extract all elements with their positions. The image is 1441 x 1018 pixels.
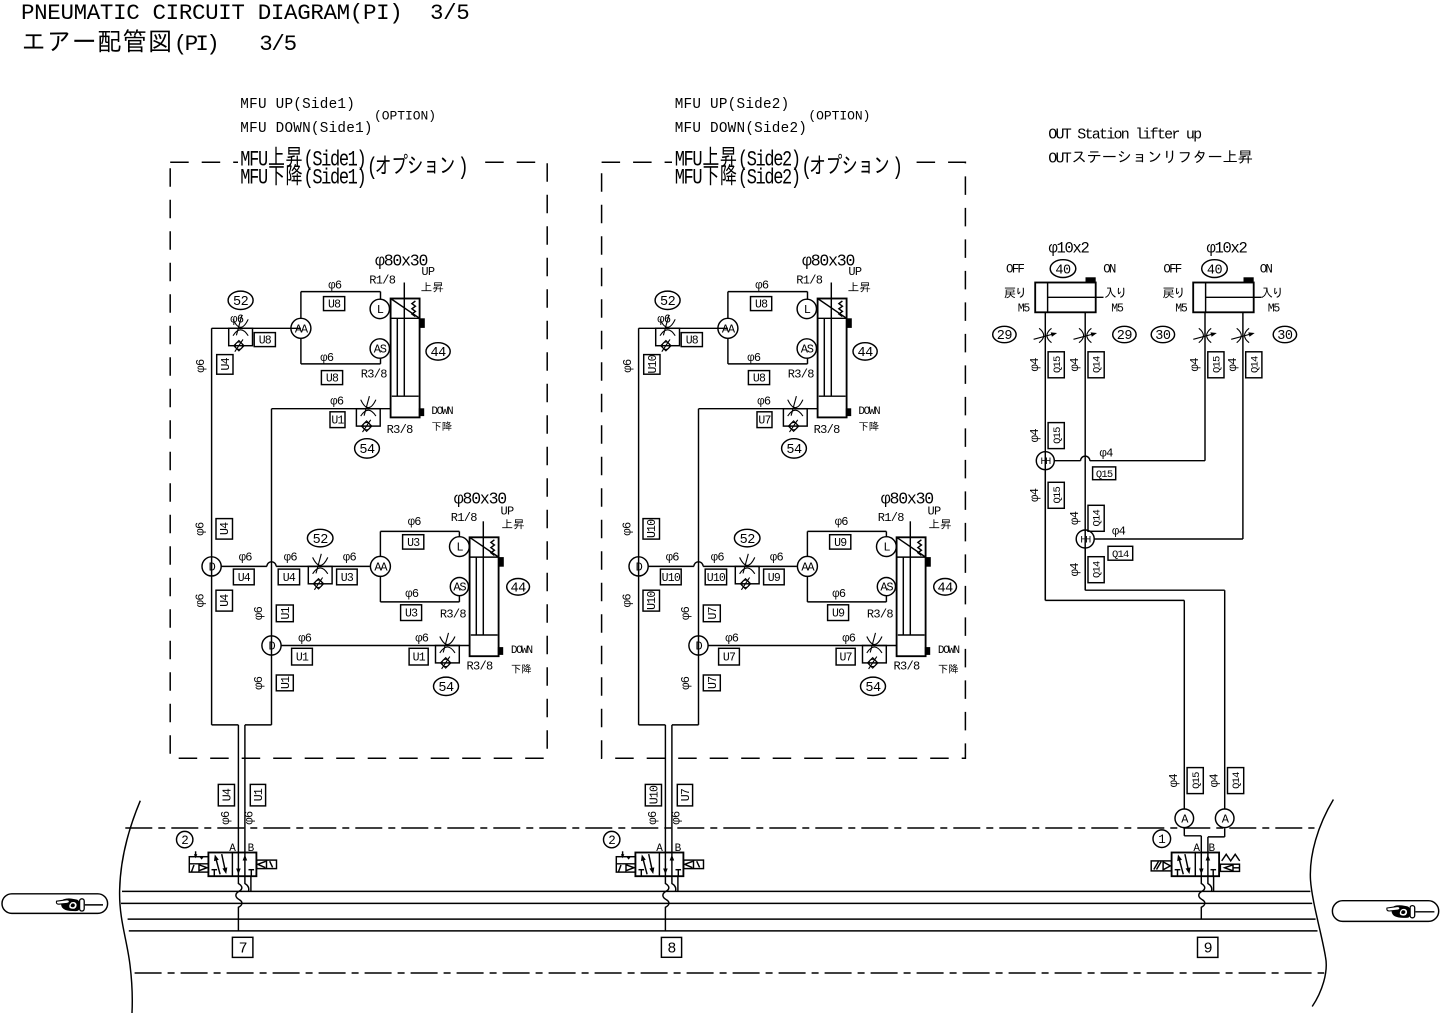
svg-text:AS: AS <box>880 581 893 595</box>
svg-text:DOWN: DOWN <box>938 645 960 657</box>
svg-text:φ4: φ4 <box>1028 429 1042 443</box>
svg-text:U4: U4 <box>283 572 296 585</box>
svg-text:U7: U7 <box>758 415 770 428</box>
label U10 <box>643 590 660 611</box>
flow control valve <box>436 646 460 663</box>
svg-text:M5: M5 <box>1018 303 1031 316</box>
text 下降 <box>269 166 283 185</box>
svg-text:φ6: φ6 <box>725 632 739 646</box>
lifter wires <box>1044 312 1046 600</box>
text エアー配管図 <box>24 34 43 48</box>
svg-text:(OPTION): (OPTION) <box>808 109 870 124</box>
label Q15 <box>1187 768 1203 794</box>
label U3 <box>337 569 358 585</box>
wire AA vertical <box>727 292 729 319</box>
rail centerline top <box>125 827 1314 829</box>
svg-text:U7: U7 <box>707 677 720 689</box>
svg-text:φ6: φ6 <box>328 279 342 293</box>
svg-text:MFU: MFU <box>240 166 267 191</box>
svg-text:φ4: φ4 <box>1028 358 1042 372</box>
svg-text:φ6: φ6 <box>666 551 680 565</box>
label U3 <box>403 535 424 549</box>
svg-text:U4: U4 <box>221 788 234 801</box>
text 戻り <box>1005 288 1016 299</box>
flow control valve <box>656 328 680 345</box>
node AA <box>797 556 817 576</box>
cylinder φ80x30 <box>818 299 847 418</box>
svg-text:R1/8: R1/8 <box>796 274 823 288</box>
balloon 54 <box>434 677 459 695</box>
svg-text:UP: UP <box>421 265 435 279</box>
svg-text:54: 54 <box>786 443 802 458</box>
svg-text:D: D <box>695 640 702 654</box>
svg-text:U1: U1 <box>280 676 293 689</box>
svg-text:U3: U3 <box>341 572 354 585</box>
svg-text:DOWN: DOWN <box>858 406 880 418</box>
svg-text:U7: U7 <box>839 652 851 665</box>
text 上昇 <box>421 282 431 291</box>
node D <box>202 557 221 576</box>
label Q14 <box>1108 546 1133 560</box>
svg-text:OFF: OFF <box>1163 262 1181 276</box>
text オプション <box>376 156 389 174</box>
wire bottom lower <box>380 601 459 603</box>
label U1 <box>250 784 265 806</box>
balloon 44 <box>934 579 957 596</box>
svg-text:U10: U10 <box>707 572 726 585</box>
label U8 <box>321 371 342 385</box>
svg-text:φ6: φ6 <box>832 587 846 601</box>
svg-text:U7: U7 <box>707 607 720 619</box>
throttle <box>1079 328 1084 342</box>
label U4 <box>218 784 234 806</box>
svg-text:φ6: φ6 <box>679 606 693 620</box>
wire valve A/B through <box>664 853 666 877</box>
wire A circle to port A <box>1183 828 1185 835</box>
wire down upper <box>699 408 818 410</box>
svg-text:φ6: φ6 <box>711 551 725 565</box>
label Q15 <box>1048 423 1064 449</box>
rail pipes <box>122 890 1310 892</box>
svg-text:54: 54 <box>438 681 454 696</box>
cylinder φ80x30 <box>897 537 926 656</box>
svg-text:φ6: φ6 <box>284 551 298 565</box>
label U10 <box>660 569 681 585</box>
hose squiggles <box>250 876 252 891</box>
svg-text:U4: U4 <box>219 522 232 535</box>
text オプション <box>811 156 824 174</box>
svg-text:Q15: Q15 <box>1052 356 1064 373</box>
svg-text:1: 1 <box>1158 833 1165 847</box>
svg-text:MFU DOWN(Side2): MFU DOWN(Side2) <box>675 121 807 137</box>
svg-text:52: 52 <box>313 533 329 548</box>
svg-text:U1: U1 <box>413 652 426 665</box>
wire down upper <box>272 408 391 410</box>
label Q14 <box>1088 352 1104 378</box>
svg-text:U8: U8 <box>328 299 341 312</box>
svg-text:U9: U9 <box>832 608 845 621</box>
svg-text:R3/8: R3/8 <box>788 367 815 381</box>
svg-text:30: 30 <box>1277 329 1293 344</box>
svg-text:U1: U1 <box>280 606 293 619</box>
label U1 <box>276 605 293 622</box>
right rail <box>698 409 700 725</box>
balloon 2 <box>604 831 620 847</box>
svg-text:φ4: φ4 <box>1167 774 1181 788</box>
svg-text:44: 44 <box>430 346 446 361</box>
wire A circle2 to port B <box>1224 828 1226 837</box>
svg-text:): ) <box>892 155 901 182</box>
balloon 52 <box>307 529 333 547</box>
svg-text:L: L <box>377 303 384 317</box>
svg-text:44: 44 <box>937 582 953 597</box>
svg-text:L: L <box>456 541 463 555</box>
text 下降 <box>512 665 521 673</box>
svg-text:L: L <box>883 541 890 555</box>
text 上昇 <box>269 147 284 165</box>
solenoid valve 5/2 <box>635 853 683 877</box>
svg-text:φ6: φ6 <box>194 594 208 608</box>
svg-text:HH: HH <box>1080 536 1091 547</box>
svg-text:L: L <box>804 303 811 317</box>
wire merge <box>212 724 239 726</box>
label Q14 <box>1246 352 1262 378</box>
svg-text:AS: AS <box>453 581 466 595</box>
balloon 52 <box>734 529 760 547</box>
svg-text:M5: M5 <box>1111 303 1124 316</box>
svg-text:): ) <box>458 155 467 182</box>
svg-text:U10: U10 <box>662 572 681 585</box>
label U7 <box>703 675 720 691</box>
balloon 44 <box>426 343 450 360</box>
svg-text:OUT: OUT <box>1048 150 1071 167</box>
svg-text:U10: U10 <box>646 591 659 610</box>
label U7 <box>719 648 740 665</box>
svg-text:PNEUMATIC CIRCUIT DIAGRAM(PI): PNEUMATIC CIRCUIT DIAGRAM(PI) <box>21 0 402 26</box>
svg-text:(Side2): (Side2) <box>738 166 800 191</box>
label U8 <box>681 333 702 347</box>
wire bottom upper <box>301 363 381 365</box>
svg-text:(PI): (PI) <box>174 31 217 57</box>
svg-text:U4: U4 <box>219 594 232 607</box>
label Q15 <box>1048 352 1064 378</box>
svg-text:φ6: φ6 <box>252 676 266 690</box>
flow control valve <box>863 646 887 663</box>
cylinder φ80x30 <box>391 299 420 418</box>
label U1 <box>276 675 293 691</box>
label U1 <box>330 412 345 428</box>
svg-text:φ10x2: φ10x2 <box>1049 239 1090 257</box>
svg-text:2: 2 <box>181 834 188 848</box>
svg-text:φ6: φ6 <box>679 676 693 690</box>
balloon 1 <box>1153 830 1171 848</box>
svg-text:φ4: φ4 <box>1226 358 1240 372</box>
label U4 <box>216 519 233 540</box>
label U9 <box>764 569 785 585</box>
svg-text:52: 52 <box>660 295 676 310</box>
svg-text:AA: AA <box>801 561 815 575</box>
hose squiggles <box>677 876 679 891</box>
svg-text:3/5: 3/5 <box>430 0 469 26</box>
wire AA vertical <box>300 292 302 319</box>
label U4 <box>233 569 254 585</box>
text 上昇 <box>848 282 858 291</box>
wire valve3 through <box>1200 853 1202 877</box>
label U10 <box>644 355 660 375</box>
svg-text:U8: U8 <box>753 373 766 386</box>
svg-text:HH: HH <box>1040 457 1051 468</box>
left break line <box>120 801 141 1013</box>
label Q15 <box>1208 352 1224 378</box>
text 上昇 <box>1224 150 1237 162</box>
node L <box>450 537 470 557</box>
wire top lower <box>380 530 459 532</box>
svg-text:7: 7 <box>239 941 247 958</box>
wire HH2 to cyl2 <box>1094 538 1243 540</box>
label U8 <box>254 333 275 347</box>
svg-text:φ6: φ6 <box>835 515 849 529</box>
svg-text:φ80x30: φ80x30 <box>454 489 507 508</box>
flow control valve <box>783 409 807 426</box>
node AS <box>370 339 389 358</box>
svg-text:U8: U8 <box>686 335 699 348</box>
svg-text:U4: U4 <box>220 357 233 370</box>
wire top lower <box>807 530 886 532</box>
svg-text:U8: U8 <box>755 299 768 312</box>
svg-text:UP: UP <box>501 505 515 519</box>
wire HH1 to cyl2 <box>1054 460 1080 462</box>
svg-text:φ6: φ6 <box>219 811 233 825</box>
svg-text:44: 44 <box>857 346 873 361</box>
wire top upper <box>728 291 808 293</box>
svg-text:U10: U10 <box>648 785 661 804</box>
node D <box>689 636 708 655</box>
svg-text:Q14: Q14 <box>1112 549 1129 561</box>
throttle <box>1199 328 1204 342</box>
svg-text:MFU UP(Side2): MFU UP(Side2) <box>675 97 790 113</box>
svg-text:φ6: φ6 <box>670 811 684 825</box>
svg-text:Q15: Q15 <box>1052 427 1064 444</box>
svg-text:30: 30 <box>1155 329 1171 344</box>
svg-text:φ80x30: φ80x30 <box>802 252 855 271</box>
svg-text:(: ( <box>367 155 376 182</box>
label U7 <box>677 784 692 806</box>
wire D1 <box>221 565 267 567</box>
svg-text:D: D <box>268 640 275 654</box>
svg-text:U7: U7 <box>723 652 735 665</box>
label Q14 <box>1088 505 1104 531</box>
right stadium pointer <box>1332 901 1438 922</box>
svg-text:φ6: φ6 <box>320 351 334 365</box>
label U1 <box>409 648 428 665</box>
text 下降 <box>432 422 441 430</box>
svg-text:AS: AS <box>374 343 387 357</box>
label U7 <box>836 648 855 665</box>
throttle <box>1039 328 1044 342</box>
balloon 54 <box>861 677 886 695</box>
wire bottom upper <box>728 363 808 365</box>
svg-text:φ6: φ6 <box>657 313 671 327</box>
svg-text:φ6: φ6 <box>194 359 208 373</box>
svg-text:φ6: φ6 <box>757 395 771 409</box>
svg-text:φ6: φ6 <box>646 811 660 825</box>
svg-text:2: 2 <box>608 834 615 848</box>
wire valve A/B through <box>237 853 239 877</box>
svg-text:φ6: φ6 <box>405 587 419 601</box>
svg-text:U9: U9 <box>768 572 781 585</box>
balloon 30 <box>1151 326 1174 342</box>
svg-text:52: 52 <box>740 533 756 548</box>
svg-text:φ6: φ6 <box>408 515 422 529</box>
svg-text:φ4: φ4 <box>1028 488 1042 502</box>
label Q14 <box>1228 768 1244 794</box>
node L <box>877 537 897 557</box>
balloon 54 <box>782 439 807 458</box>
wire D1 <box>648 565 694 567</box>
label U7 <box>757 412 772 428</box>
label U4 <box>216 590 233 611</box>
right break line <box>1310 800 1333 1007</box>
svg-text:φ4: φ4 <box>1208 774 1222 788</box>
svg-text:Q15: Q15 <box>1212 356 1224 373</box>
rail centerline bottom <box>135 972 1325 974</box>
svg-text:9: 9 <box>1204 941 1212 958</box>
balloon 29 <box>1113 326 1136 342</box>
cylinder φ10x2 <box>1193 283 1254 313</box>
label 8 <box>661 937 681 957</box>
wire lifter drops <box>1045 599 1184 601</box>
flow control valve <box>735 566 759 583</box>
svg-text:Q14: Q14 <box>1092 510 1104 527</box>
svg-text:φ6: φ6 <box>298 632 312 646</box>
svg-text:φ6: φ6 <box>230 313 244 327</box>
text 下降 <box>939 665 948 673</box>
svg-text:φ6: φ6 <box>343 551 357 565</box>
label U10 <box>645 784 661 806</box>
label U9 <box>830 535 851 549</box>
svg-text:Q15: Q15 <box>1191 772 1203 789</box>
svg-text:φ10x2: φ10x2 <box>1207 239 1248 257</box>
svg-text:AA: AA <box>295 322 309 336</box>
svg-text:29: 29 <box>997 329 1013 344</box>
label Q15 <box>1093 467 1116 480</box>
svg-text:φ4: φ4 <box>1068 563 1082 577</box>
svg-text:Q14: Q14 <box>1092 561 1104 578</box>
label Q15 <box>1048 482 1064 508</box>
svg-text:φ6: φ6 <box>842 632 856 646</box>
svg-text:MFU DOWN(Side1): MFU DOWN(Side1) <box>240 121 372 137</box>
left stadium pointer <box>2 894 108 914</box>
svg-text:φ4: φ4 <box>1068 511 1082 525</box>
svg-text:54: 54 <box>359 443 375 458</box>
svg-text:8: 8 <box>667 941 676 958</box>
flow control valve <box>229 328 253 345</box>
hand icon <box>61 898 79 911</box>
svg-text:AA: AA <box>722 322 736 336</box>
balloon 54 <box>355 439 380 458</box>
svg-text:ON: ON <box>1260 262 1273 276</box>
balloon 40 <box>1202 260 1228 278</box>
svg-text:R3/8: R3/8 <box>440 608 467 622</box>
right rail <box>271 409 273 725</box>
flow control valve <box>308 566 332 583</box>
svg-text:φ4: φ4 <box>1100 446 1114 460</box>
svg-text:Q15: Q15 <box>1096 469 1113 481</box>
node AS <box>450 578 468 596</box>
drop wires <box>237 725 239 853</box>
label U8 <box>324 297 345 311</box>
svg-text:U3: U3 <box>407 537 420 550</box>
svg-text:Q14: Q14 <box>1092 356 1104 373</box>
svg-text:OFF: OFF <box>1006 262 1024 276</box>
text 上昇 <box>929 519 939 528</box>
svg-text:φ6: φ6 <box>755 279 769 293</box>
svg-text:U4: U4 <box>238 572 251 585</box>
svg-text:R3/8: R3/8 <box>867 608 894 622</box>
svg-text:φ80x30: φ80x30 <box>881 489 934 508</box>
svg-text:Q14: Q14 <box>1249 356 1261 373</box>
svg-text:U8: U8 <box>326 373 339 386</box>
hose squiggles valve3 <box>1213 876 1215 891</box>
svg-text:U8: U8 <box>259 335 272 348</box>
svg-text:U1: U1 <box>296 652 309 665</box>
svg-text:φ6: φ6 <box>770 551 784 565</box>
svg-text:(: ( <box>801 155 810 182</box>
svg-text:DOWN: DOWN <box>431 406 453 418</box>
svg-text:R1/8: R1/8 <box>878 511 905 525</box>
text 入り <box>1105 288 1116 298</box>
text 戻り <box>1163 288 1174 299</box>
svg-text:ON: ON <box>1103 262 1116 276</box>
cylinder φ10x2 <box>1035 283 1096 313</box>
node AA <box>291 318 311 338</box>
node AA <box>718 318 738 338</box>
svg-text:φ6: φ6 <box>415 632 429 646</box>
label U9 <box>828 605 849 621</box>
svg-text:φ6: φ6 <box>194 522 208 536</box>
svg-text:φ4: φ4 <box>1112 524 1126 538</box>
svg-text:DOWN: DOWN <box>511 645 533 657</box>
svg-text:U9: U9 <box>834 537 847 550</box>
balloon 44 <box>507 579 530 596</box>
svg-text:R3/8: R3/8 <box>387 423 414 437</box>
solenoid valve 5/2 spring return <box>1172 853 1220 877</box>
balloon 52 <box>228 291 253 309</box>
svg-text:54: 54 <box>865 681 881 696</box>
svg-text:UP: UP <box>928 505 942 519</box>
svg-text:40: 40 <box>1055 263 1071 278</box>
svg-text:R3/8: R3/8 <box>467 660 494 674</box>
text 入り <box>1261 288 1272 298</box>
svg-text:U3: U3 <box>405 608 418 621</box>
svg-text:MFU: MFU <box>675 166 702 191</box>
node D <box>629 557 648 576</box>
wire merge <box>639 724 666 726</box>
label U1 <box>292 648 313 665</box>
node AS <box>877 578 895 596</box>
label 7 <box>232 937 253 957</box>
label 9 <box>1198 937 1218 957</box>
svg-text:M5: M5 <box>1268 303 1281 316</box>
svg-text:R3/8: R3/8 <box>894 660 921 674</box>
svg-text:φ6: φ6 <box>243 811 257 825</box>
svg-text:AA: AA <box>374 561 388 575</box>
svg-text:D: D <box>636 561 643 575</box>
svg-text:AS: AS <box>801 343 814 357</box>
label U8 <box>748 371 769 385</box>
svg-text:(OPTION): (OPTION) <box>374 109 436 124</box>
svg-text:(Side1): (Side1) <box>304 166 366 191</box>
